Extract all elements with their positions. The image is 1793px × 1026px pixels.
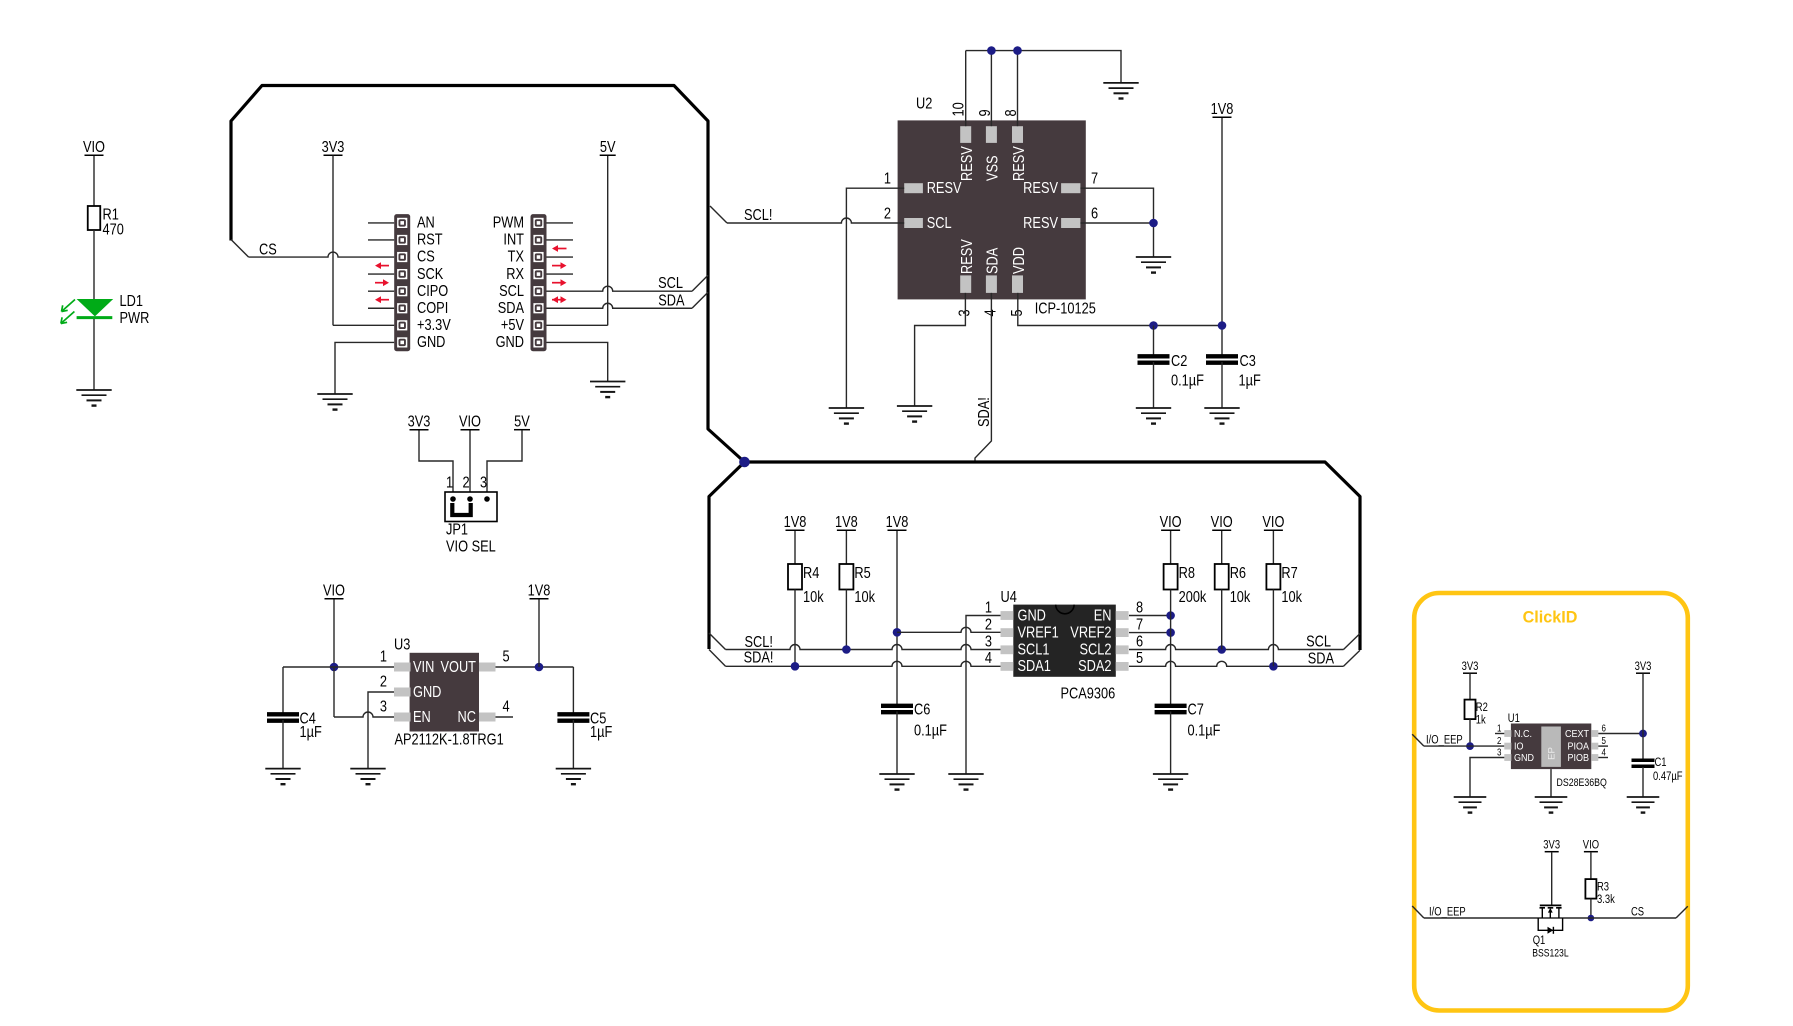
svg-text:4: 4	[503, 698, 510, 716]
svg-text:+3.3V: +3.3V	[417, 317, 451, 335]
svg-text:SCL1: SCL1	[1018, 641, 1050, 659]
svg-text:VIO: VIO	[83, 139, 105, 157]
svg-text:CS: CS	[1631, 906, 1644, 919]
svg-text:SDA1: SDA1	[1018, 658, 1051, 676]
svg-text:SDA: SDA	[1308, 650, 1335, 668]
svg-text:RST: RST	[417, 231, 443, 249]
svg-text:2: 2	[1497, 735, 1501, 746]
svg-text:5: 5	[503, 648, 510, 666]
svg-text:1µF: 1µF	[300, 724, 322, 742]
svg-text:EN: EN	[1094, 607, 1112, 625]
svg-text:LD1: LD1	[120, 293, 143, 311]
svg-text:SCK: SCK	[417, 266, 444, 284]
svg-text:SDA: SDA	[658, 292, 685, 310]
svg-text:1µF: 1µF	[1239, 372, 1261, 390]
svg-text:ICP-10125: ICP-10125	[1035, 300, 1096, 318]
svg-text:3V3: 3V3	[1462, 660, 1479, 673]
svg-text:N.C.: N.C.	[1514, 728, 1532, 740]
svg-text:R7: R7	[1281, 565, 1297, 583]
svg-text:R3: R3	[1597, 881, 1609, 894]
svg-text:3V3: 3V3	[322, 139, 345, 157]
svg-text:GND: GND	[1514, 752, 1534, 764]
svg-text:CS: CS	[259, 241, 277, 259]
svg-text:INT: INT	[503, 231, 524, 249]
svg-text:C6: C6	[914, 701, 930, 719]
svg-text:5: 5	[1602, 735, 1606, 746]
svg-text:VREF1: VREF1	[1018, 624, 1059, 642]
svg-text:0.47µF: 0.47µF	[1653, 770, 1683, 783]
svg-text:470: 470	[103, 221, 124, 239]
svg-text:1: 1	[380, 648, 387, 666]
svg-text:SDA: SDA	[498, 300, 525, 318]
svg-text:1: 1	[1497, 723, 1501, 734]
svg-text:R8: R8	[1179, 565, 1195, 583]
svg-text:VIO: VIO	[323, 582, 345, 600]
svg-text:0.1µF: 0.1µF	[1188, 722, 1221, 740]
svg-text:COPI: COPI	[417, 300, 448, 318]
svg-text:VIO SEL: VIO SEL	[446, 538, 496, 556]
svg-text:CEXT: CEXT	[1565, 728, 1589, 740]
svg-text:VREF2: VREF2	[1070, 624, 1111, 642]
svg-text:CS: CS	[417, 248, 435, 266]
svg-text:SDA2: SDA2	[1078, 658, 1111, 676]
svg-text:1V8: 1V8	[528, 582, 551, 600]
svg-text:R4: R4	[803, 565, 819, 583]
svg-text:10k: 10k	[854, 589, 875, 607]
svg-text:8: 8	[1136, 599, 1143, 617]
svg-text:AP2112K-1.8TRG1: AP2112K-1.8TRG1	[395, 731, 504, 749]
svg-text:RESV: RESV	[1023, 215, 1058, 233]
svg-text:SCL: SCL	[499, 283, 524, 301]
svg-text:200k: 200k	[1179, 589, 1207, 607]
svg-text:U3: U3	[394, 636, 410, 654]
svg-text:PIOA: PIOA	[1568, 741, 1590, 753]
svg-text:SCL: SCL	[927, 215, 952, 233]
svg-text:VIN: VIN	[413, 659, 434, 677]
svg-text:I/O_EEP: I/O_EEP	[1426, 734, 1463, 747]
svg-text:CIPO: CIPO	[417, 283, 448, 301]
svg-text:VIO: VIO	[1583, 839, 1599, 852]
svg-text:R5: R5	[854, 565, 870, 583]
svg-text:RESV: RESV	[1011, 146, 1029, 181]
svg-text:U2: U2	[916, 95, 932, 113]
svg-text:3V3: 3V3	[408, 413, 431, 431]
svg-text:3.3k: 3.3k	[1597, 893, 1615, 906]
svg-text:VIO: VIO	[1262, 514, 1284, 532]
svg-text:RESV: RESV	[959, 239, 977, 274]
svg-text:3V3: 3V3	[1635, 660, 1652, 673]
svg-text:4: 4	[985, 650, 992, 668]
svg-text:SCL2: SCL2	[1080, 641, 1112, 659]
svg-text:1µF: 1µF	[590, 724, 612, 742]
svg-text:4: 4	[1602, 747, 1606, 758]
svg-text:GND: GND	[417, 334, 445, 352]
svg-text:PWR: PWR	[120, 310, 150, 328]
svg-text:3: 3	[985, 633, 992, 651]
svg-text:VIO: VIO	[1160, 514, 1182, 532]
svg-text:SCL!: SCL!	[744, 207, 772, 225]
svg-text:IO: IO	[1514, 741, 1523, 753]
svg-text:10k: 10k	[1281, 589, 1302, 607]
svg-text:10k: 10k	[1230, 589, 1251, 607]
svg-text:PIOB: PIOB	[1568, 752, 1589, 764]
svg-text:SCL: SCL	[658, 275, 683, 293]
svg-text:10k: 10k	[803, 589, 824, 607]
svg-text:U1: U1	[1508, 712, 1520, 725]
svg-text:1V8: 1V8	[886, 514, 909, 532]
svg-text:5V: 5V	[600, 139, 616, 157]
svg-text:VOUT: VOUT	[440, 659, 476, 677]
svg-text:1V8: 1V8	[835, 514, 858, 532]
svg-text:GND: GND	[496, 334, 524, 352]
svg-text:I/O_EEP: I/O_EEP	[1429, 906, 1466, 919]
svg-text:1V8: 1V8	[784, 514, 807, 532]
svg-text:1: 1	[446, 474, 453, 492]
svg-text:ClickID: ClickID	[1523, 607, 1578, 626]
svg-text:2: 2	[462, 474, 469, 492]
svg-text:6: 6	[1091, 205, 1098, 223]
svg-text:2: 2	[884, 205, 891, 223]
svg-text:R6: R6	[1230, 565, 1246, 583]
svg-text:C7: C7	[1188, 701, 1204, 719]
svg-text:C2: C2	[1171, 353, 1187, 371]
svg-text:VDD: VDD	[1011, 247, 1029, 274]
svg-text:PWM: PWM	[493, 214, 524, 232]
svg-text:DS28E36BQ: DS28E36BQ	[1557, 777, 1608, 789]
svg-text:SDA!: SDA!	[744, 649, 774, 667]
svg-text:5V: 5V	[514, 413, 530, 431]
svg-text:1V8: 1V8	[1211, 101, 1234, 119]
svg-text:RESV: RESV	[1023, 180, 1058, 198]
svg-text:0.1µF: 0.1µF	[1171, 372, 1204, 390]
svg-text:BSS123L: BSS123L	[1532, 948, 1569, 960]
svg-text:SDA: SDA	[984, 247, 1002, 274]
svg-text:EN: EN	[413, 709, 431, 727]
svg-text:EP: EP	[1547, 747, 1558, 760]
svg-text:VSS: VSS	[984, 155, 1002, 181]
svg-text:0.1µF: 0.1µF	[914, 722, 947, 740]
svg-text:JP1: JP1	[446, 521, 468, 539]
svg-text:AN: AN	[417, 214, 435, 232]
svg-text:6: 6	[1136, 633, 1143, 651]
svg-text:C3: C3	[1240, 353, 1256, 371]
svg-text:1k: 1k	[1476, 714, 1487, 727]
svg-text:2: 2	[985, 616, 992, 634]
svg-text:GND: GND	[1018, 607, 1046, 625]
svg-text:3V3: 3V3	[1543, 839, 1560, 852]
svg-text:SCL: SCL	[1306, 633, 1331, 651]
svg-text:VIO: VIO	[459, 413, 481, 431]
svg-text:RESV: RESV	[927, 180, 962, 198]
svg-text:RESV: RESV	[959, 146, 977, 181]
svg-text:PCA9306: PCA9306	[1061, 685, 1116, 703]
svg-text:VIO: VIO	[1211, 514, 1233, 532]
svg-text:SDA!: SDA!	[976, 397, 994, 427]
svg-text:3: 3	[480, 474, 487, 492]
svg-text:7: 7	[1091, 170, 1098, 188]
svg-text:3: 3	[380, 698, 387, 716]
svg-text:+5V: +5V	[501, 317, 524, 335]
svg-text:2: 2	[380, 673, 387, 691]
svg-text:C1: C1	[1655, 756, 1667, 769]
svg-text:U4: U4	[1001, 589, 1017, 607]
svg-text:5: 5	[1136, 650, 1143, 668]
svg-text:7: 7	[1136, 616, 1143, 634]
svg-text:RX: RX	[506, 266, 524, 284]
svg-text:Q1: Q1	[1533, 934, 1546, 947]
svg-text:R2: R2	[1476, 701, 1488, 714]
svg-text:1: 1	[985, 599, 992, 617]
svg-text:TX: TX	[508, 248, 525, 266]
svg-text:1: 1	[884, 170, 891, 188]
svg-text:6: 6	[1602, 723, 1606, 734]
svg-text:3: 3	[1497, 747, 1501, 758]
svg-text:NC: NC	[458, 709, 476, 727]
svg-text:GND: GND	[413, 684, 441, 702]
